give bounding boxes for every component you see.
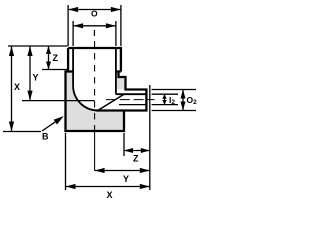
dim line I <box>73 25 116 27</box>
arrows Z left <box>46 46 51 54</box>
dim line I2 <box>164 94 166 104</box>
ext line O left <box>67 5 69 46</box>
svg-text:Z: Z <box>133 154 139 164</box>
vertical centerline (dashed in body) <box>94 41 96 131</box>
ext line bottom left wall <box>65 133 67 190</box>
bore bend arc <box>73 86 98 111</box>
bore bend bottom line <box>96 109 124 111</box>
dim line O2 <box>182 90 184 111</box>
svg-text:I: I <box>93 28 95 38</box>
svg-text:X: X <box>14 82 20 92</box>
dim line X left <box>11 46 13 132</box>
leader arrow B <box>54 116 64 125</box>
dim line X bottom <box>66 186 150 188</box>
svg-text:O: O <box>91 9 98 19</box>
ext line I left <box>72 21 74 46</box>
arrows X left <box>9 46 14 56</box>
arrows O <box>68 7 78 12</box>
arrows Y left <box>27 46 32 56</box>
ext line left top <box>8 45 68 47</box>
ext line outlet outer bottom <box>152 110 196 112</box>
elbow body fill (right shoulder) <box>116 72 126 90</box>
arrows X bottom <box>66 184 76 189</box>
ext line outlet bore top <box>152 93 178 95</box>
outer profile outline <box>66 48 147 131</box>
dim line Z bottom <box>124 150 150 152</box>
ext line O right <box>120 5 122 46</box>
ext line Z bottom <box>42 69 68 71</box>
outlet bore top line <box>116 93 146 94</box>
leader line B <box>42 118 61 131</box>
arrows O2 <box>181 90 186 99</box>
ext line bottom body right <box>123 133 125 156</box>
arrows Z bottom <box>124 148 133 153</box>
socket bore right wall <box>115 48 117 93</box>
arrows I <box>73 23 83 28</box>
dim line Z left <box>48 46 50 70</box>
svg-text:B: B <box>42 132 49 142</box>
ext line outlet outer top <box>152 89 196 91</box>
outlet bore bottom line <box>119 104 146 106</box>
svg-text:X: X <box>106 190 112 200</box>
arrows Y bottom <box>95 168 105 173</box>
dim line O <box>68 9 121 11</box>
svg-text:Y: Y <box>123 174 129 184</box>
outlet horizontal centerline <box>106 99 155 101</box>
ext line Y bottom (outlet axis) <box>22 100 95 102</box>
bore miter diagonal <box>98 94 124 110</box>
dim line Y left <box>29 46 31 101</box>
socket bore left wall <box>72 48 74 86</box>
dim line Y bottom <box>95 170 150 172</box>
ext line outlet bore bottom <box>152 104 178 106</box>
ext line bottom outlet end <box>149 85 151 190</box>
svg-text:Z: Z <box>53 53 59 63</box>
ext line I right <box>115 21 117 46</box>
arrows I2 <box>162 94 166 99</box>
vertical centerline extension to Y dim <box>94 131 96 171</box>
ext line X bottom <box>3 131 41 133</box>
svg-text:Y: Y <box>33 73 39 83</box>
elbow body fill (main L-section) <box>66 72 125 132</box>
